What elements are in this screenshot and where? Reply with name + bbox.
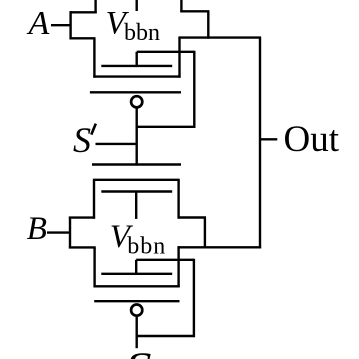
inverter bubble on M2 lower back-gate: [131, 305, 142, 316]
wire: upper source lead of transistor M1 (cropped box above): [94, 0, 96, 13]
svg-text:bbn: bbn: [124, 20, 160, 46]
wire: Out rail vertical: [259, 38, 261, 249]
wire: junction line to select vertical: [137, 126, 196, 128]
transistor M1 front-gate plate: [101, 65, 172, 67]
transistor M1 back-gate bar: [90, 91, 181, 93]
node A: input step wire: [69, 11, 71, 39]
wire: M1 drain line to Out rail: [178, 36, 261, 38]
transistor M2 back-gate bar: [92, 163, 181, 165]
svg-text:B: B: [27, 211, 47, 247]
transistor M2 upper box: bottom-right edge: [178, 216, 207, 218]
prime mark of S': [91, 124, 96, 135]
wire: drain step of M1: [207, 11, 209, 38]
wire: gate link horizontal of M1: [137, 51, 195, 53]
node B: input step wire: [69, 217, 71, 249]
wire: select vertical from bubble down to M2 back-gate bar: [135, 109, 137, 166]
transistor M2 upper box: top edge: [93, 179, 180, 181]
wire: Out tick: [260, 138, 277, 140]
wire: upper box bottom-left edge: [70, 11, 97, 13]
wire: gate link vertical of M1: [193, 51, 195, 128]
transistor M2 front-gate plate (lower): [101, 273, 172, 275]
svg-text:S: S: [73, 120, 91, 160]
transistor M2 lower box: left side: [93, 247, 95, 287]
transistor M1 body box: bottom edge: [93, 75, 180, 77]
transistor M2 front-gate plate (upper): [101, 190, 172, 192]
wire: gate link vertical of M2: [193, 259, 195, 337]
transistor M2 upper box: right side: [177, 180, 179, 219]
transistor M1 body box: left side: [93, 38, 95, 77]
transistor M2 lower box: right side: [177, 246, 179, 287]
wire: plate stem of M1: [135, 52, 137, 66]
transistor M2 upper box: left side: [93, 180, 95, 219]
wire: M2 drain line to Out rail: [178, 246, 262, 248]
svg-text:Out: Out: [284, 119, 340, 160]
wire: upper box right side remnant: [180, 0, 182, 12]
wire: gate link horizontal of M2: [136, 259, 194, 261]
transistor M2 lower box: bottom edge: [94, 285, 180, 287]
transistor M1 body box: top-left edge: [70, 37, 96, 39]
wire: upper box bottom-right edge: [180, 10, 209, 12]
wire: upper plate stem remnant pointing to Vbbn label: [135, 0, 137, 11]
svg-text:S: S: [126, 346, 152, 359]
wire: B input horizontal: [47, 231, 70, 233]
wire: drain step of M2: [204, 218, 206, 249]
transistor M2 upper box: bottom-left edge: [69, 216, 95, 218]
svg-text:bbn: bbn: [127, 233, 166, 259]
transistor M2 lower box: top-left edge: [69, 246, 96, 248]
wire: A input horizontal: [51, 24, 71, 26]
wire: select lead from bubble down to S label: [135, 317, 137, 348]
transistor M1 body box: right side: [178, 38, 180, 78]
wire: plate stem of M2 lower: [135, 260, 137, 274]
svg-text:A: A: [27, 5, 50, 42]
transistor M2 lower back-gate bar: [94, 300, 179, 302]
wire: junction line to select vertical (bottom): [137, 335, 195, 337]
inverter bubble on M1 back-gate: [131, 96, 142, 107]
wire: plate stem to Vbbn label of M2: [135, 192, 137, 219]
wire: S' input horizontal: [96, 143, 137, 145]
